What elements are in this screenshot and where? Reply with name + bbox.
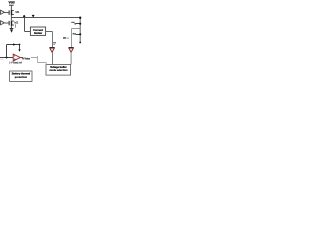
diode D2 [69, 48, 74, 53]
wire right bus vertical [79, 18, 81, 43]
svg-text:+V bias: +V bias [22, 57, 31, 60]
wire faint output path to buffer [31, 56, 47, 65]
wire Vdd to M1 source [10, 5, 12, 10]
block current limiter [30, 27, 45, 35]
junction dot tap2 [79, 33, 81, 35]
arrow down on loop [18, 49, 20, 51]
transistor M2 [9, 20, 14, 26]
wire feedback loop [7, 45, 20, 58]
wire op-amp output stub [20, 57, 23, 59]
power rail tick [9, 4, 14, 6]
junction dot top right [79, 17, 81, 19]
svg-text:M2: M2 [14, 21, 18, 25]
svg-text:(-V bias) ref: (-V bias) ref [10, 62, 23, 65]
svg-text:Vdd: Vdd [9, 0, 15, 4]
wire op-amp input [0, 57, 13, 59]
tap 1 arrow blob [75, 23, 76, 24]
arrow right on loop [13, 43, 16, 45]
diode D1 [50, 48, 55, 53]
tap 2 label [73, 33, 75, 34]
wire right branch from rail tap [72, 29, 81, 48]
tap 2 stub [76, 34, 80, 36]
tap 1 label [71, 22, 74, 23]
tap 1 stub [76, 23, 80, 25]
corner dot loop [19, 44, 21, 46]
junction dot A [23, 15, 25, 17]
svg-text:mode selection: mode selection [49, 69, 68, 72]
junction dot tap1 [79, 23, 81, 25]
wire main top rail [11, 17, 80, 19]
wire M1 drain down through node to M2 source [10, 15, 12, 20]
wire gate lead M1 [4, 12, 8, 14]
wire M2 drain to ground [10, 26, 12, 29]
wire D2 to buffer box [70, 52, 72, 64]
marks under op-amp [14, 59, 17, 60]
wire D1 to buffer box [52, 52, 54, 64]
inverter A1 driving M1 gate [1, 10, 5, 14]
bulk stub M2 [14, 24, 16, 27]
wire drop to D1 [52, 32, 54, 48]
wire gate lead M2 [4, 22, 8, 24]
ground [10, 28, 14, 30]
wire limiter output [46, 31, 53, 33]
tap 2 arrow blob [75, 33, 76, 34]
junction dot input [6, 57, 8, 59]
svg-text:limiter: limiter [34, 31, 42, 35]
inverter A2 driving M2 gate [1, 21, 5, 25]
label D1 [53, 42, 56, 45]
transistor M1 [9, 10, 14, 16]
terminal dot bottom [79, 41, 81, 43]
block battery thermal protection [10, 71, 32, 81]
label D2 [63, 37, 69, 38]
wire drop to current limiter [25, 18, 31, 32]
svg-text:M1: M1 [16, 10, 20, 14]
current arrow on top rail [32, 15, 35, 18]
op-amp input marks [14, 55, 15, 58]
op-amp U1 [13, 54, 20, 61]
svg-text:protection: protection [15, 76, 28, 79]
block voltage buffer / mode selection [46, 65, 71, 76]
